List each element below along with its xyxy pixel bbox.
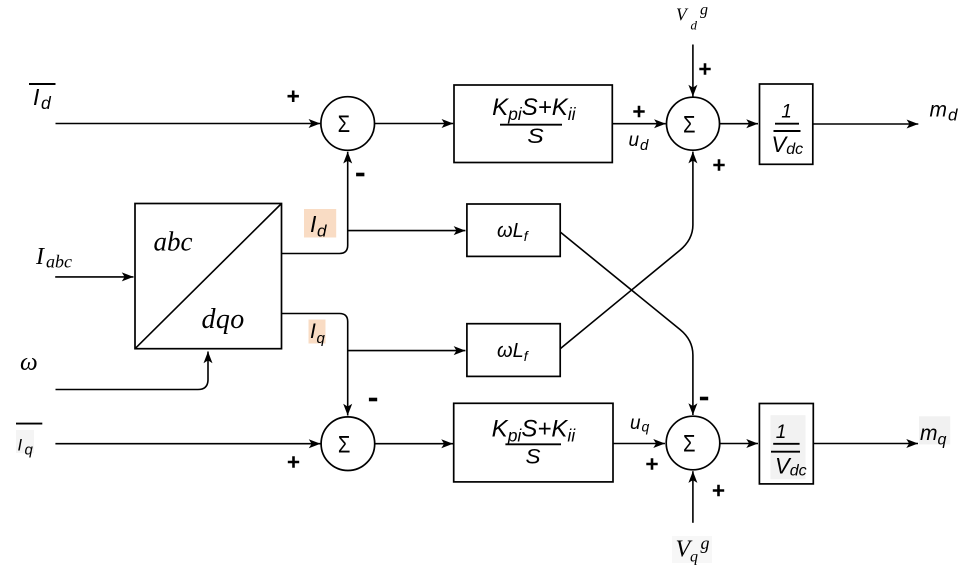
svg-text:g: g [701, 533, 710, 553]
svg-text:m: m [920, 422, 938, 445]
plus sign sum2 bottom [713, 159, 724, 170]
block PI controller 2 [454, 403, 613, 482]
block PI controller 1 [454, 85, 612, 163]
svg-text:dqo: dqo [202, 304, 245, 335]
wire Iq branch to wLf2 [348, 350, 466, 352]
svg-text:S: S [526, 444, 542, 468]
block abc-dqo transform [135, 204, 282, 349]
svg-text:Σ: Σ [683, 431, 696, 458]
svg-text:d: d [41, 93, 52, 113]
svg-text:q: q [642, 419, 650, 435]
wire cross-coupling wLf1 to sum4 [560, 232, 693, 415]
wire omega to abc-dqo box [56, 352, 209, 390]
node Vqg label [672, 533, 712, 566]
svg-text:u: u [630, 413, 641, 434]
node Id highlighted label [304, 209, 336, 240]
wire Vdc2 to mq [813, 443, 918, 445]
svg-text:Σ: Σ [338, 431, 351, 458]
block wLf2 [467, 324, 560, 377]
svg-text:1: 1 [781, 101, 792, 122]
svg-text:abc: abc [154, 227, 193, 257]
svg-text:I: I [18, 436, 23, 454]
wire sum1 to PI1 [375, 123, 454, 125]
svg-text:abc: abc [46, 252, 72, 272]
node uq label [630, 413, 650, 435]
node ud label [629, 130, 650, 154]
svg-text:g: g [700, 1, 708, 18]
wire Id output from box to sum1 [282, 152, 348, 254]
summing junction sum3 [321, 417, 375, 471]
svg-text:d: d [640, 137, 649, 154]
svg-text:I: I [35, 244, 45, 270]
wire Vdc1 to md [813, 123, 919, 125]
svg-text:Σ: Σ [683, 111, 696, 138]
node Iq_ref label [16, 424, 42, 459]
wire Id_ref to sum1 [56, 123, 321, 125]
plus sign sum3 left [288, 456, 299, 467]
minus sign sum1 bottom [356, 173, 364, 177]
plus sign sum1 left [288, 91, 299, 103]
wire Iq_ref to sum3 [55, 443, 320, 445]
node Iabc label [35, 244, 72, 272]
summing junction sum1 [321, 97, 375, 151]
node Vdg label [676, 1, 708, 32]
node mq label [919, 416, 950, 448]
svg-text:KpiS+Kii: KpiS+Kii [492, 94, 577, 124]
svg-text:1: 1 [776, 422, 787, 443]
plus sign sum2 left [633, 106, 644, 117]
node md label [930, 98, 959, 124]
block 1/Vdc gain 2 [759, 404, 813, 484]
svg-text:Σ: Σ [338, 111, 351, 138]
svg-text:ω: ω [20, 349, 38, 376]
svg-text:q: q [690, 549, 698, 566]
svg-text:q: q [25, 442, 34, 459]
wire sum4 to Vdc2 [720, 443, 758, 445]
minus sign sum4 top [700, 397, 708, 401]
wire PI1 to sum2 [612, 123, 666, 125]
svg-text:q: q [317, 330, 326, 347]
node Iq highlighted label [309, 320, 326, 348]
plus sign sum4 left [646, 458, 657, 469]
svg-text:I: I [310, 320, 316, 343]
plus sign sum2 top [699, 63, 710, 74]
wire sum3 to PI2 [375, 443, 453, 445]
wire sum2 to Vdc1 [720, 123, 759, 125]
summing junction sum2 [667, 97, 720, 150]
wire Vdg to sum2 [692, 45, 694, 97]
svg-text:d: d [691, 17, 698, 32]
plus sign sum4 bottom [713, 485, 724, 496]
node Id_ref label [29, 84, 56, 113]
minus sign sum3 top [369, 398, 377, 402]
svg-text:d: d [317, 221, 327, 240]
wire Iabc to abc-dqo box [55, 276, 133, 278]
wire Vqg to sum4 [692, 471, 694, 523]
summing junction sum4 [666, 416, 720, 470]
wire PI2 to sum4 [613, 443, 665, 445]
svg-text:u: u [629, 130, 640, 151]
svg-text:S: S [527, 124, 544, 148]
svg-text:q: q [938, 432, 947, 449]
wire Iq output from box to sum3 [282, 314, 348, 416]
wire Id branch to wLf1 [348, 230, 466, 232]
block wLf1 [467, 204, 560, 256]
block 1/Vdc gain 1 [760, 84, 813, 164]
wire cross-coupling wLf2 to sum2 [560, 152, 693, 349]
svg-text:KpiS+Kii: KpiS+Kii [492, 416, 577, 446]
svg-text:d: d [948, 105, 958, 124]
svg-text:m: m [930, 98, 948, 121]
svg-text:I: I [310, 211, 317, 237]
svg-text:I: I [33, 84, 40, 110]
